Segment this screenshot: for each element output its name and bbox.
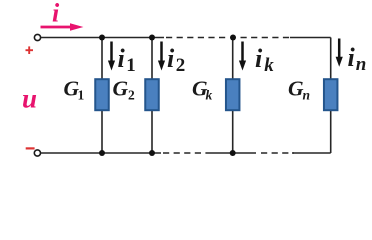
svg-text:u: u: [22, 84, 37, 114]
current arrow ik: [239, 42, 246, 71]
node bottom 2: [149, 150, 155, 156]
svg-text:i2: i2: [167, 44, 185, 76]
node bottom 1: [99, 150, 105, 156]
svg-text:Gk: Gk: [192, 77, 213, 103]
current arrow i1: [108, 42, 115, 71]
svg-text:G1: G1: [64, 77, 85, 103]
wire branch 2: [151, 38, 153, 154]
wire branch n: [330, 38, 332, 154]
wire top dashed 2: [241, 37, 293, 39]
conductance Gk: [226, 79, 240, 110]
wire top solid left: [41, 37, 164, 39]
bottom terminal (-): [34, 150, 40, 156]
wire bottom dashed 1: [163, 152, 206, 154]
svg-text:Gn: Gn: [288, 77, 310, 103]
svg-text:in: in: [348, 43, 367, 75]
label minus: [26, 147, 35, 149]
wire bottom solid left: [41, 152, 161, 154]
wire bottom dashed 2: [261, 152, 294, 154]
current arrow i2: [158, 42, 165, 71]
conductance G2: [145, 79, 159, 110]
svg-text:i: i: [52, 0, 60, 28]
node bottom k: [230, 150, 236, 156]
node top k: [230, 35, 236, 41]
wire bottom solid mid: [206, 152, 256, 154]
wire top dashed 1: [166, 37, 229, 39]
wire bottom solid right: [292, 152, 331, 154]
wire branch 1: [101, 38, 103, 154]
node top 2: [149, 35, 155, 41]
node top 1: [99, 35, 105, 41]
current arrow in: [336, 39, 343, 67]
svg-text:G2: G2: [113, 77, 136, 103]
wire top solid right: [290, 37, 331, 39]
svg-text:ik: ik: [255, 44, 274, 76]
conductance G1: [95, 79, 109, 110]
label +: [26, 46, 34, 54]
wire branch k: [232, 38, 234, 154]
conductance Gn: [324, 79, 338, 110]
current arrow i: [41, 23, 84, 30]
top terminal (+): [34, 34, 40, 40]
svg-text:i1: i1: [118, 44, 136, 76]
